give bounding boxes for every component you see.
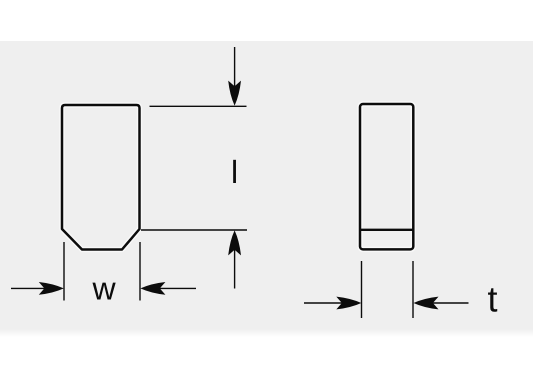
side view body (right shape) white halo: [360, 104, 413, 249]
front view insert body (left shape): [62, 105, 140, 250]
l dimension: top extension line: [150, 105, 247, 107]
svg-text:t: t: [487, 279, 497, 320]
t dimension: left arrow (points right): [304, 297, 361, 310]
side view body (right shape): [360, 104, 413, 249]
w dimension: left extension line: [63, 242, 65, 301]
l dimension: bottom extension line: [141, 229, 247, 231]
front view insert body (left shape) white halo: [62, 105, 140, 250]
side view inner line: [360, 229, 413, 231]
w dimension: right arrow (points left): [140, 282, 196, 295]
svg-text:w: w: [91, 271, 116, 307]
l dimension: lower arrow (up): [228, 230, 241, 288]
t dimension: right extension line: [412, 261, 414, 318]
w dimension: right extension line: [139, 242, 141, 301]
t dimension: right arrow (points left): [414, 297, 469, 310]
l dimension: upper arrow (down): [228, 47, 241, 106]
gray drawing background band: [0, 41, 533, 329]
svg-text:l: l: [231, 154, 238, 190]
w dimension: left arrow (points right): [11, 282, 64, 295]
t dimension: left extension line: [361, 261, 363, 318]
